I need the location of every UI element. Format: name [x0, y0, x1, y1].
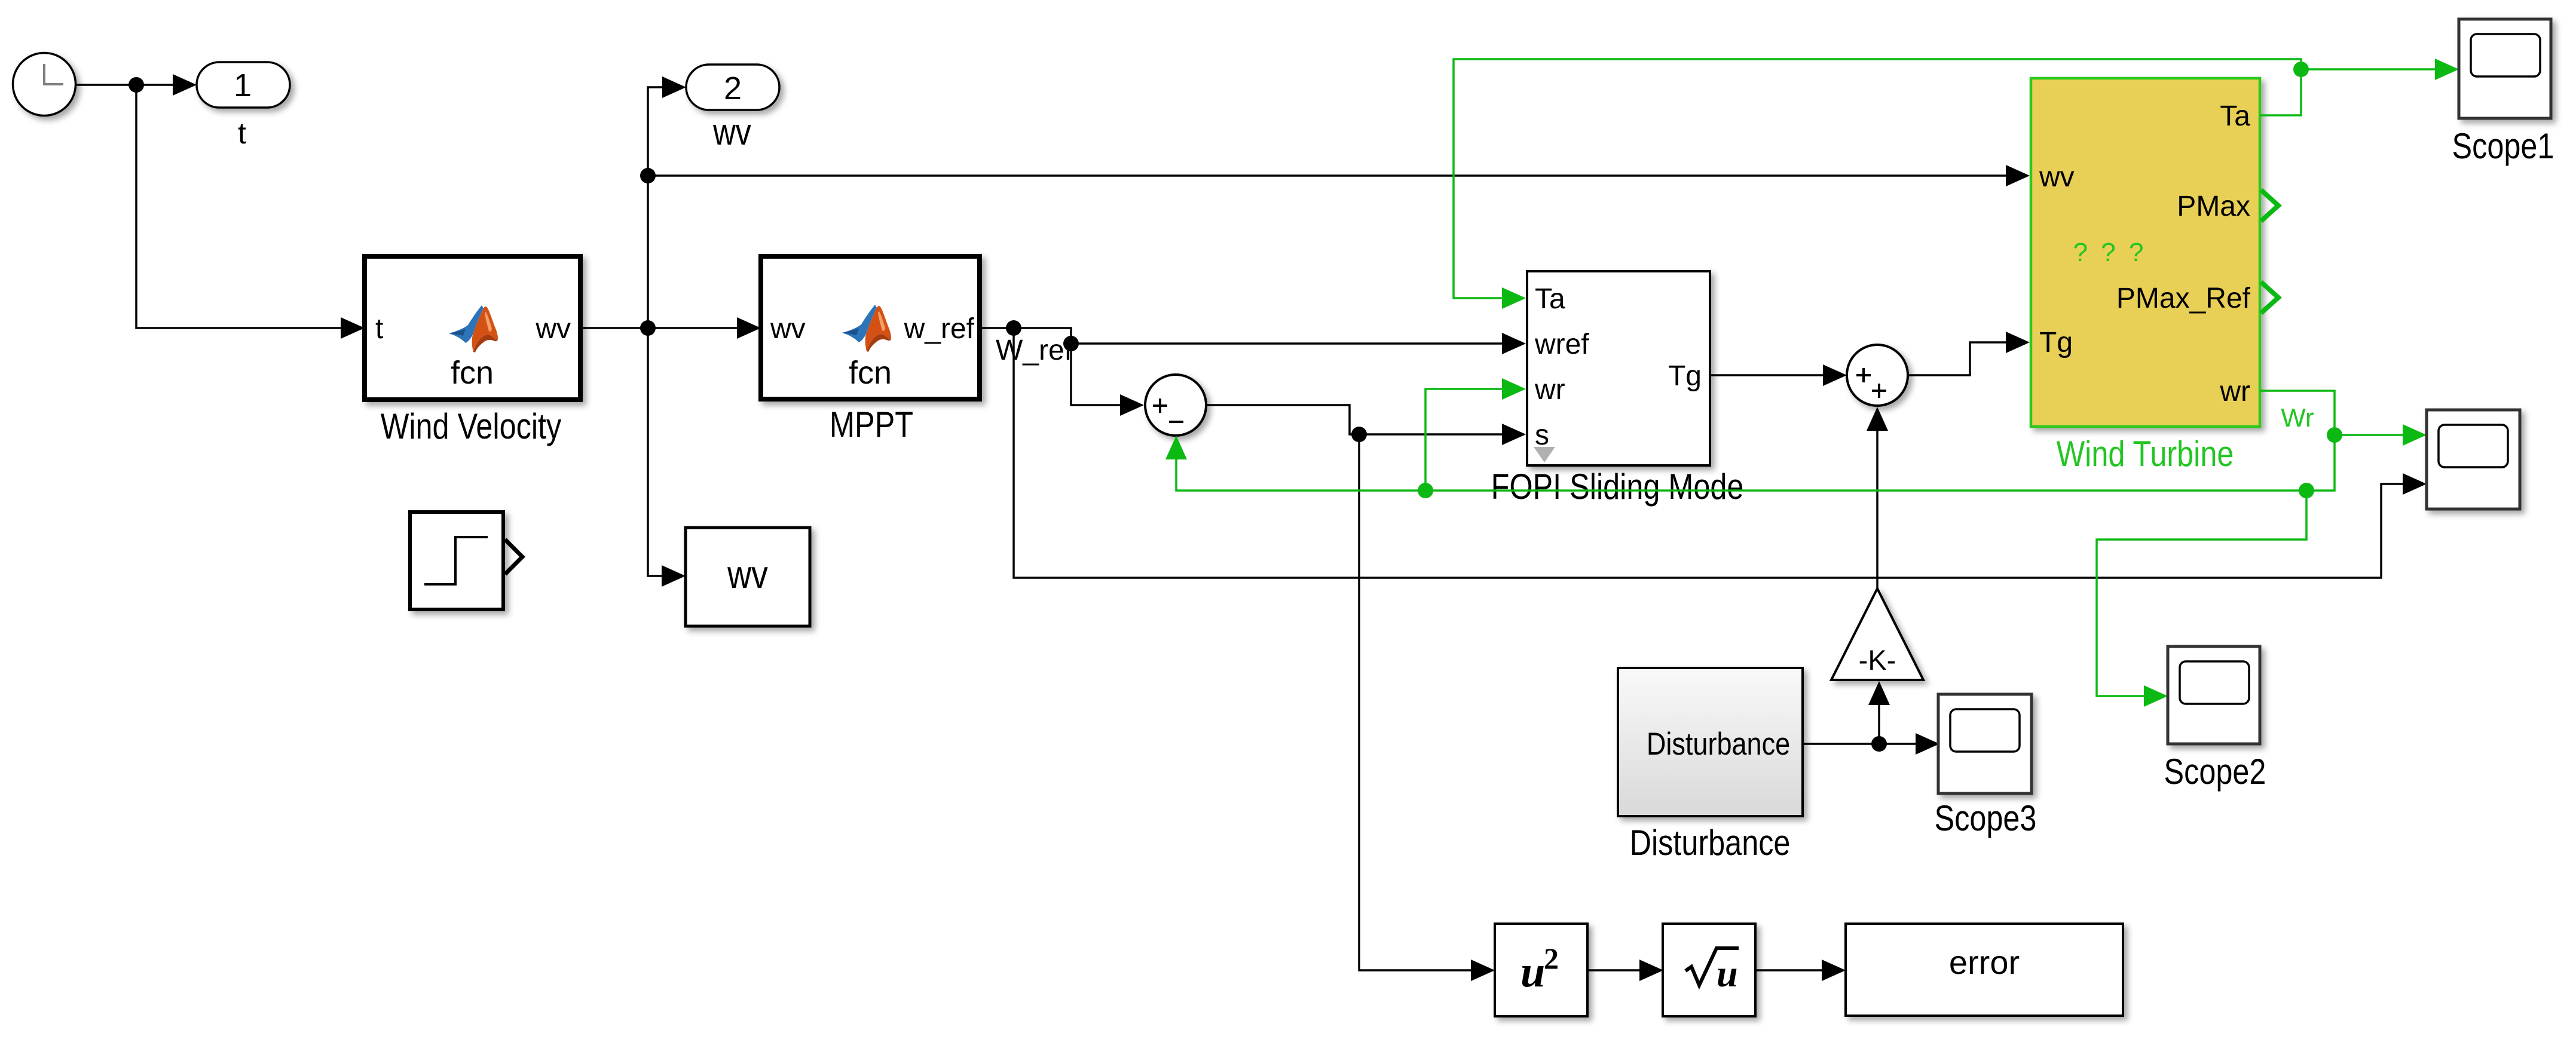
Disturbance block [1618, 668, 1803, 816]
svg-text:Ta: Ta [2220, 100, 2250, 132]
svg-text:wv: wv [770, 313, 806, 345]
wire Wind Velocity to MPPT [580, 317, 761, 339]
green wire wr to Scope2 [2097, 491, 2306, 707]
Wind Turbine block [2031, 78, 2278, 427]
svg-text:w_ref: w_ref [904, 313, 975, 345]
svg-text:s: s [1535, 419, 1549, 451]
FOPI Sliding Mode block [1527, 271, 1710, 465]
svg-text:Disturbance: Disturbance [1630, 823, 1791, 863]
error block [1846, 924, 2123, 1016]
svg-text:t: t [375, 313, 383, 345]
svg-text:2: 2 [1544, 942, 1559, 975]
svg-text:wv: wv [712, 112, 751, 153]
svg-text:error: error [1949, 943, 2020, 981]
Scope1 [2459, 19, 2551, 118]
svg-text:Wr: Wr [2281, 403, 2314, 433]
outport 1 [197, 62, 290, 108]
junction wr fopi [1418, 483, 1433, 498]
wv tag block [686, 528, 810, 626]
outport 2 [686, 65, 779, 110]
svg-text:u: u [1520, 948, 1545, 997]
wire wv to Wind Turbine [648, 165, 2030, 186]
gain -K- [1831, 589, 1923, 680]
svg-text:Tg: Tg [2039, 327, 2073, 358]
svg-text:Scope1: Scope1 [2452, 126, 2554, 166]
sum2 [1847, 345, 1908, 406]
svg-text:MPPT: MPPT [830, 404, 913, 445]
step block [410, 512, 522, 609]
Scope3 [1938, 694, 2032, 793]
svg-text:wv: wv [727, 552, 768, 596]
wire wv down to wv tag block [648, 328, 686, 587]
svg-text:fcn: fcn [451, 355, 494, 391]
junction wv to turbine [640, 168, 656, 183]
svg-text:Scope2: Scope2 [2164, 752, 2266, 792]
junction wr scope2 [2299, 483, 2314, 498]
svg-text:wv: wv [535, 313, 571, 345]
svg-text:2: 2 [724, 71, 742, 106]
svg-text:wref: wref [1534, 329, 1589, 360]
junction wref branch [1063, 336, 1079, 351]
svg-text:Wind Velocity: Wind Velocity [381, 406, 562, 446]
wire gain up to sum2 [1867, 407, 1888, 589]
wire clock down to Wind Velocity [136, 85, 365, 339]
junction clock net [129, 77, 144, 93]
clock block [13, 53, 76, 116]
sum1 [1145, 375, 1206, 436]
wire sqrt to error [1755, 960, 1846, 981]
svg-text:PMax: PMax [2177, 191, 2250, 222]
wire u2 to sqrt [1587, 960, 1663, 981]
u2 block [1495, 924, 1587, 1016]
svg-text:u: u [1717, 952, 1738, 995]
green wire Ta to Scope1 [2301, 59, 2459, 80]
svg-text:wr: wr [1534, 374, 1565, 406]
junction wv main [640, 320, 656, 336]
svg-text:PMax_Ref: PMax_Ref [2116, 283, 2251, 314]
Wind Velocity block [365, 256, 580, 400]
wire sum2 to Wind Turbine Tg [1908, 332, 2030, 375]
wire FOPI Tg to sum2 [1710, 364, 1847, 386]
svg-text:? ? ?: ? ? ? [2073, 238, 2147, 267]
wire clock to outport t [75, 74, 197, 96]
svg-text:-K-: -K- [1859, 644, 1896, 676]
wire disturbance up to gain [1868, 681, 1890, 744]
wire Disturbance to Scope3 [1803, 733, 1939, 755]
svg-text:wv: wv [2039, 161, 2075, 193]
svg-text:W_ref: W_ref [996, 335, 1073, 366]
wire wv up to outport 2 [648, 76, 686, 328]
wire wref down to sum1 [1071, 344, 1144, 416]
svg-text:FOPI Sliding Mode: FOPI Sliding Mode [1491, 467, 1744, 507]
wire s down to u2 [1359, 434, 1495, 981]
green wire wr feedback [1165, 391, 2335, 491]
svg-text:wr: wr [2219, 376, 2250, 407]
wire w_ref to FOPI wref [980, 328, 1526, 354]
green wire wr to FOPI wr [1425, 378, 1526, 491]
svg-text:Tg: Tg [1668, 360, 1702, 392]
svg-text:Scope3: Scope3 [1935, 798, 2037, 838]
junction wr scope [2327, 427, 2342, 443]
Scope2 [2168, 646, 2260, 744]
svg-text:fcn: fcn [849, 355, 892, 391]
green wire wr to scope [2335, 424, 2427, 446]
wire W_ref long feedback to scope [1014, 328, 2427, 578]
svg-text:t: t [238, 117, 246, 150]
wire sum1 out to FOPI s [1206, 405, 1526, 445]
green wire Ta feedback [1454, 59, 2301, 309]
MPPT block [761, 256, 980, 399]
junction disturbance [1871, 736, 1887, 752]
junction s net [1351, 427, 1367, 442]
junction Ta scope1 [2293, 62, 2309, 77]
sqrt block [1663, 924, 1755, 1016]
svg-text:Ta: Ta [1535, 283, 1565, 315]
svg-text:1: 1 [234, 68, 252, 103]
scope wr (unnamed) [2427, 410, 2520, 509]
svg-text:Disturbance: Disturbance [1647, 727, 1790, 762]
junction w_ref [1006, 320, 1021, 336]
svg-text:Wind Turbine: Wind Turbine [2057, 434, 2234, 474]
